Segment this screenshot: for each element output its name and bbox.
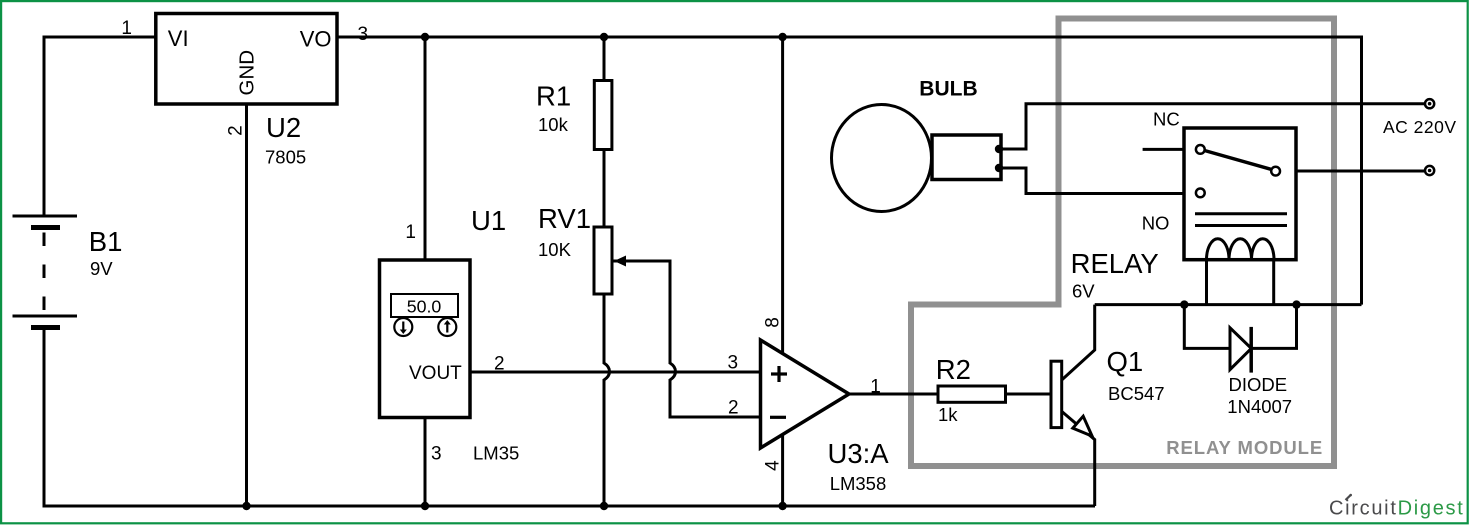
svg-text:NC: NC — [1153, 109, 1180, 130]
svg-text:1N4007: 1N4007 — [1227, 396, 1292, 417]
svg-text:Q1: Q1 — [1107, 346, 1144, 377]
svg-text:3: 3 — [728, 353, 739, 374]
svg-text:1k: 1k — [938, 404, 958, 425]
svg-text:AC 220V: AC 220V — [1383, 117, 1457, 137]
svg-text:RELAY MODULE: RELAY MODULE — [1166, 437, 1323, 458]
svg-text:BC547: BC547 — [1108, 383, 1165, 404]
svg-text:7805: 7805 — [265, 147, 306, 168]
svg-text:8: 8 — [763, 317, 784, 328]
svg-text:NO: NO — [1142, 213, 1170, 234]
svg-text:50.0: 50.0 — [407, 296, 442, 316]
svg-text:R2: R2 — [936, 354, 971, 385]
svg-text:GND: GND — [236, 50, 259, 96]
svg-text:10k: 10k — [538, 114, 569, 135]
svg-text:RELAY: RELAY — [1071, 248, 1159, 279]
svg-text:4: 4 — [763, 460, 784, 471]
svg-text:1: 1 — [870, 377, 881, 398]
svg-text:U1: U1 — [471, 205, 506, 236]
svg-text:3: 3 — [358, 24, 369, 45]
svg-text:R1: R1 — [536, 81, 571, 112]
svg-text:LM358: LM358 — [830, 473, 887, 494]
svg-text:2: 2 — [226, 125, 247, 136]
svg-text:9V: 9V — [90, 258, 113, 279]
svg-text:BULB: BULB — [919, 78, 977, 101]
svg-text:CircuitDigest: CircuitDigest — [1329, 497, 1464, 519]
svg-text:2: 2 — [494, 354, 505, 375]
svg-text:VI: VI — [168, 26, 189, 51]
svg-text:RV1: RV1 — [538, 203, 591, 234]
svg-text:B1: B1 — [89, 226, 123, 257]
svg-text:1: 1 — [121, 18, 132, 39]
svg-text:VO: VO — [300, 27, 332, 52]
svg-text:1: 1 — [405, 222, 416, 243]
svg-text:3: 3 — [431, 444, 442, 465]
svg-text:2: 2 — [728, 398, 739, 419]
svg-text:LM35: LM35 — [473, 443, 519, 464]
svg-text:6V: 6V — [1072, 281, 1095, 302]
svg-text:U3:A: U3:A — [828, 438, 890, 469]
svg-text:DIODE: DIODE — [1229, 374, 1288, 395]
svg-text:VOUT: VOUT — [409, 363, 462, 384]
svg-text:U2: U2 — [266, 112, 301, 143]
svg-text:10K: 10K — [538, 239, 572, 260]
